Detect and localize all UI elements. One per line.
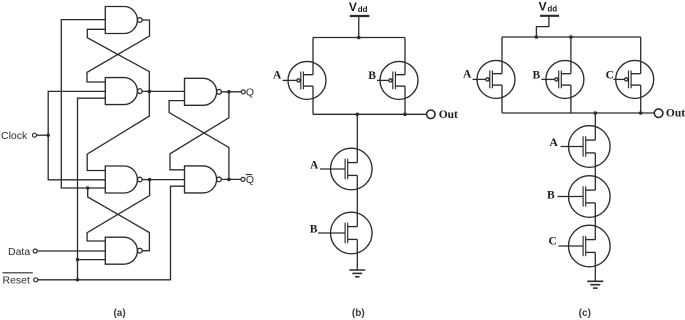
NAND gate G4 (105, 237, 142, 264)
junction: G2 output node (148, 90, 152, 94)
wire: G6 output to Qbar terminal (221, 178, 241, 180)
junction: Q node (227, 90, 231, 94)
svg-text:(b): (b) (352, 308, 365, 319)
svg-text:(c): (c) (579, 308, 591, 319)
input terminal Clock (33, 133, 37, 137)
svg-text:Data: Data (8, 246, 30, 258)
wire: Vdd lead with jog (c) (536, 16, 549, 37)
svg-text:dd: dd (358, 5, 368, 14)
svg-text:Q: Q (246, 174, 254, 186)
svg-text:B: B (368, 70, 376, 82)
wire: G4 output feedback up to G1/G3 rail (88, 188, 150, 251)
NMOS transistor A (c) (569, 126, 611, 168)
wire: NMOS C source to ground (c) (594, 252, 596, 281)
wire: NMOS B source to NMOS C drain (c) (594, 203, 596, 240)
NAND gate G6 (185, 166, 222, 193)
wire: Vdd lead (b) (358, 16, 360, 38)
wire: PMOS B source lead (c) (570, 85, 572, 113)
svg-text:V: V (539, 0, 547, 14)
wire: gate lead PMOS A (c) (473, 78, 486, 80)
PMOS transistor A (b) (288, 61, 326, 99)
wire: G3 output cross down to G4 top input (87, 180, 150, 241)
PMOS transistor C (c) (616, 60, 654, 98)
wire: gate lead NMOS A (b) (320, 168, 345, 170)
svg-text:A: A (310, 159, 319, 171)
svg-text:C: C (606, 69, 614, 81)
svg-text:dd: dd (547, 5, 557, 14)
ground symbol (b) (349, 270, 365, 277)
wire: Clock rail to G2 and G3 middle inputs (48, 91, 105, 179)
junction: output rail to NMOS stack (b) (356, 113, 360, 117)
wire: G5 output to Q terminal (221, 91, 241, 93)
wire: PMOS A source lead to output rail (b) (312, 86, 314, 114)
wire: NMOS B source to ground (b) (356, 239, 358, 270)
svg-text:Clock: Clock (1, 130, 28, 142)
wire: G5 output cross down to G6 top input (170, 92, 229, 170)
wire: PMOS A drain lead (b) (312, 38, 314, 75)
wire: G3 output to G6 middle input (141, 179, 184, 181)
wire: G2 output to G5 top input (141, 90, 185, 92)
junction: Reset line and rail (76, 278, 79, 281)
wire: G6 output cross up to G5 bottom input (169, 101, 229, 180)
wire: NMOS A drain lead (c) (594, 113, 596, 140)
wire: gate lead PMOS C (c) (614, 78, 625, 80)
svg-text:A: A (273, 70, 282, 82)
wire: output rail (c) (502, 112, 654, 114)
junction: top rail at PMOS B drain (c) (569, 35, 573, 39)
svg-text:Reset: Reset (3, 275, 31, 287)
wire: G4 feedback rail to G1 top and G3 bottom inputs (61, 20, 105, 188)
wire: pull-up top rail (b) (313, 37, 405, 39)
wire: PMOS A source lead (c) (501, 85, 503, 113)
svg-text:A: A (550, 137, 559, 149)
svg-text:B: B (547, 189, 555, 201)
junction: G4 feedback joins rail line (86, 186, 89, 189)
NAND gate G1 (105, 7, 142, 34)
ground symbol (c) (587, 281, 603, 288)
svg-text:Out: Out (439, 109, 458, 121)
wire: NMOS A source to NMOS B drain (b) (356, 175, 358, 226)
wire: gate lead NMOS C (c) (559, 245, 584, 247)
NAND gate G2 (105, 78, 142, 105)
junction: Reset rail at G4 input (76, 258, 79, 261)
junction: Clock tap on rail (47, 134, 50, 137)
svg-text:(a): (a) (113, 308, 125, 319)
output terminal Out (c) (654, 109, 663, 118)
junction: Vdd tap (b) (357, 36, 361, 40)
wire: NMOS A source to NMOS B drain (c) (594, 153, 596, 190)
NAND gate G3 (105, 166, 142, 193)
junction: output rail to NMOS stack (c) (594, 111, 598, 115)
input terminal Reset (active low) (34, 278, 38, 282)
input terminal Data (33, 249, 37, 253)
wire: Reset rail to G4 bottom input (78, 259, 106, 261)
output terminal Qbar (241, 177, 245, 181)
wire: G1 output cross down to G2 top input (87, 20, 150, 82)
junction: output rail at PMOS B source (b) (403, 113, 407, 117)
svg-text:Out: Out (666, 108, 685, 120)
junction: Vdd tap (c) (535, 35, 539, 39)
NAND gate G5 (185, 78, 222, 105)
wire: G2 output cross down to G3 top input (87, 91, 149, 170)
NMOS transistor A (b) (331, 148, 373, 190)
NMOS transistor C (c) (569, 225, 611, 267)
wire: PMOS A drain lead (c) (501, 37, 503, 74)
wire: Reset rail to G2 bottom input (78, 98, 106, 280)
svg-text:Q: Q (246, 86, 254, 98)
power symbol Vdd (c) (540, 15, 559, 17)
wire: PMOS B source lead to output rail (b) (404, 86, 406, 114)
PMOS transistor B (c) (546, 60, 584, 98)
wire: NMOS A drain lead (b) (356, 114, 358, 162)
wire: gate lead PMOS B (b) (377, 79, 389, 81)
junction: output rail at PMOS C source (c) (639, 111, 643, 115)
wire: G2 output cross up to G1 bottom input (87, 29, 149, 91)
svg-text:B: B (533, 69, 541, 81)
svg-text:C: C (549, 236, 557, 248)
output terminal Q (241, 90, 245, 94)
wire: gate lead PMOS A (b) (283, 79, 297, 81)
wire: PMOS B drain lead (c) (570, 37, 572, 74)
junction: G3 output node (148, 178, 152, 182)
svg-text:A: A (463, 68, 472, 80)
svg-text:B: B (310, 223, 318, 235)
wire: output rail (b) (313, 113, 426, 115)
wire: PMOS C drain lead (c) (640, 37, 642, 74)
wire: Clock lead (37, 134, 49, 136)
wire: gate lead NMOS B (c) (558, 196, 584, 198)
PMOS transistor A (c) (477, 60, 515, 98)
wire: Data line to G4 middle input (37, 250, 105, 252)
wire: PMOS C source lead (c) (640, 85, 642, 113)
power symbol Vdd (b) (350, 15, 370, 17)
wire: gate lead PMOS B (c) (542, 78, 555, 80)
PMOS transistor B (b) (380, 61, 418, 99)
wire: pull-up top rail (c) (502, 36, 641, 38)
wire: gate lead NMOS B (b) (318, 232, 345, 234)
NMOS transistor B (c) (569, 176, 611, 218)
svg-text:V: V (349, 0, 357, 14)
junction: Qbar node (227, 178, 231, 182)
wire: gate lead NMOS A (c) (561, 146, 584, 148)
wire: PMOS B drain lead (b) (404, 38, 406, 75)
wire: Reset line to G6 bottom input (38, 186, 185, 280)
output terminal Out (b) (427, 110, 436, 119)
NMOS transistor B (b) (331, 212, 373, 254)
